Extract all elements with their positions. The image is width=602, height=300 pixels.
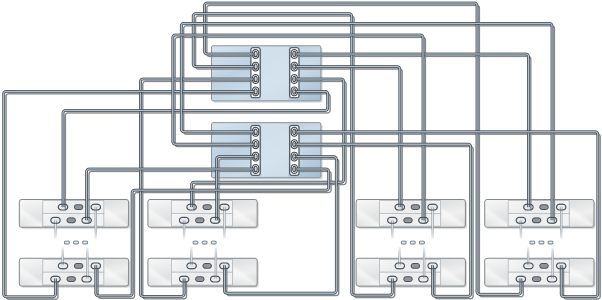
HBA port strip controller 1 right HBA xyxy=(290,48,299,98)
cable C2-L4 to shelf1-1 bottom-right xyxy=(87,169,256,220)
cable C1-R2 to shelf3-1 top-left xyxy=(294,67,400,208)
ports shelf4-2 xyxy=(516,263,566,282)
HBA port strip controller 2 left HBA xyxy=(251,126,260,176)
ports shelf1-2 xyxy=(51,263,101,282)
cable C1-R3 to shelf2-1 top-left xyxy=(192,79,344,207)
inter-shelf cables chain 4 xyxy=(521,207,561,278)
controller port ovals xyxy=(254,51,296,171)
cable C2-L2 to shelf3-1 bottom-right xyxy=(173,35,423,220)
ellipsis dots chain 4 xyxy=(530,241,553,244)
HBA port strip controller 2 right HBA xyxy=(290,126,299,176)
cable C1-L2 to shelf3-2 bottom-left xyxy=(193,14,392,295)
cable C1-R1 to shelf4-1 top-left xyxy=(294,54,529,207)
disk shelf shelf4-1 xyxy=(485,200,596,230)
shelf port rings xyxy=(51,204,566,282)
controller controller 1 xyxy=(212,46,323,103)
ellipsis dots chain 2 xyxy=(193,241,216,244)
inter-shelf cables chain 1 xyxy=(56,207,96,278)
disk shelf shelf2-2 xyxy=(148,258,259,288)
cable C1-L1 to shelf4-2 bottom-left xyxy=(205,3,521,294)
disk shelf shelf3-2 xyxy=(356,258,467,288)
HBA port strip controller 1 left HBA xyxy=(251,48,260,98)
ports shelf2-2 xyxy=(179,263,229,282)
controller controller 2 xyxy=(212,123,323,180)
disk shelf shelf1-2 xyxy=(19,258,130,288)
inter-shelf cables chain 2 xyxy=(184,207,224,278)
cable C1-R4 to shelf1-1 top-left xyxy=(63,91,328,207)
cable C1-L3 to shelf2-2 bottom-left xyxy=(140,79,255,296)
cable C2-R2 to shelf3-2 top-right xyxy=(294,144,471,296)
disk shelf shelf1-1 xyxy=(19,200,130,230)
ports shelf2-1 xyxy=(179,204,229,223)
cable C2-L1 to shelf4-1 bottom-right xyxy=(181,23,552,220)
ports shelf4-1 xyxy=(516,204,566,223)
cable C2-R1 to shelf4-2 top-right xyxy=(294,132,598,297)
disk shelf shelf4-2 xyxy=(485,258,596,288)
cable C2-L3 to shelf2-1 bottom-right xyxy=(217,157,256,221)
ports shelf3-1 xyxy=(388,204,438,223)
inter-shelf cables chain 3 xyxy=(392,207,432,278)
cable C2-R3 to shelf2-2 top-right xyxy=(224,157,336,294)
ellipsis dots chain 3 xyxy=(401,241,424,244)
cable C1-L4 to shelf1-2 bottom-left xyxy=(4,91,256,296)
cable C2-R4 to shelf1-2 top-right xyxy=(96,169,329,296)
disk shelf shelf3-1 xyxy=(356,200,467,230)
ports shelf3-2 xyxy=(388,263,438,282)
ellipsis dots chain 1 xyxy=(64,241,87,244)
disk shelf shelf2-1 xyxy=(148,200,259,230)
ports shelf1-1 xyxy=(51,204,101,223)
